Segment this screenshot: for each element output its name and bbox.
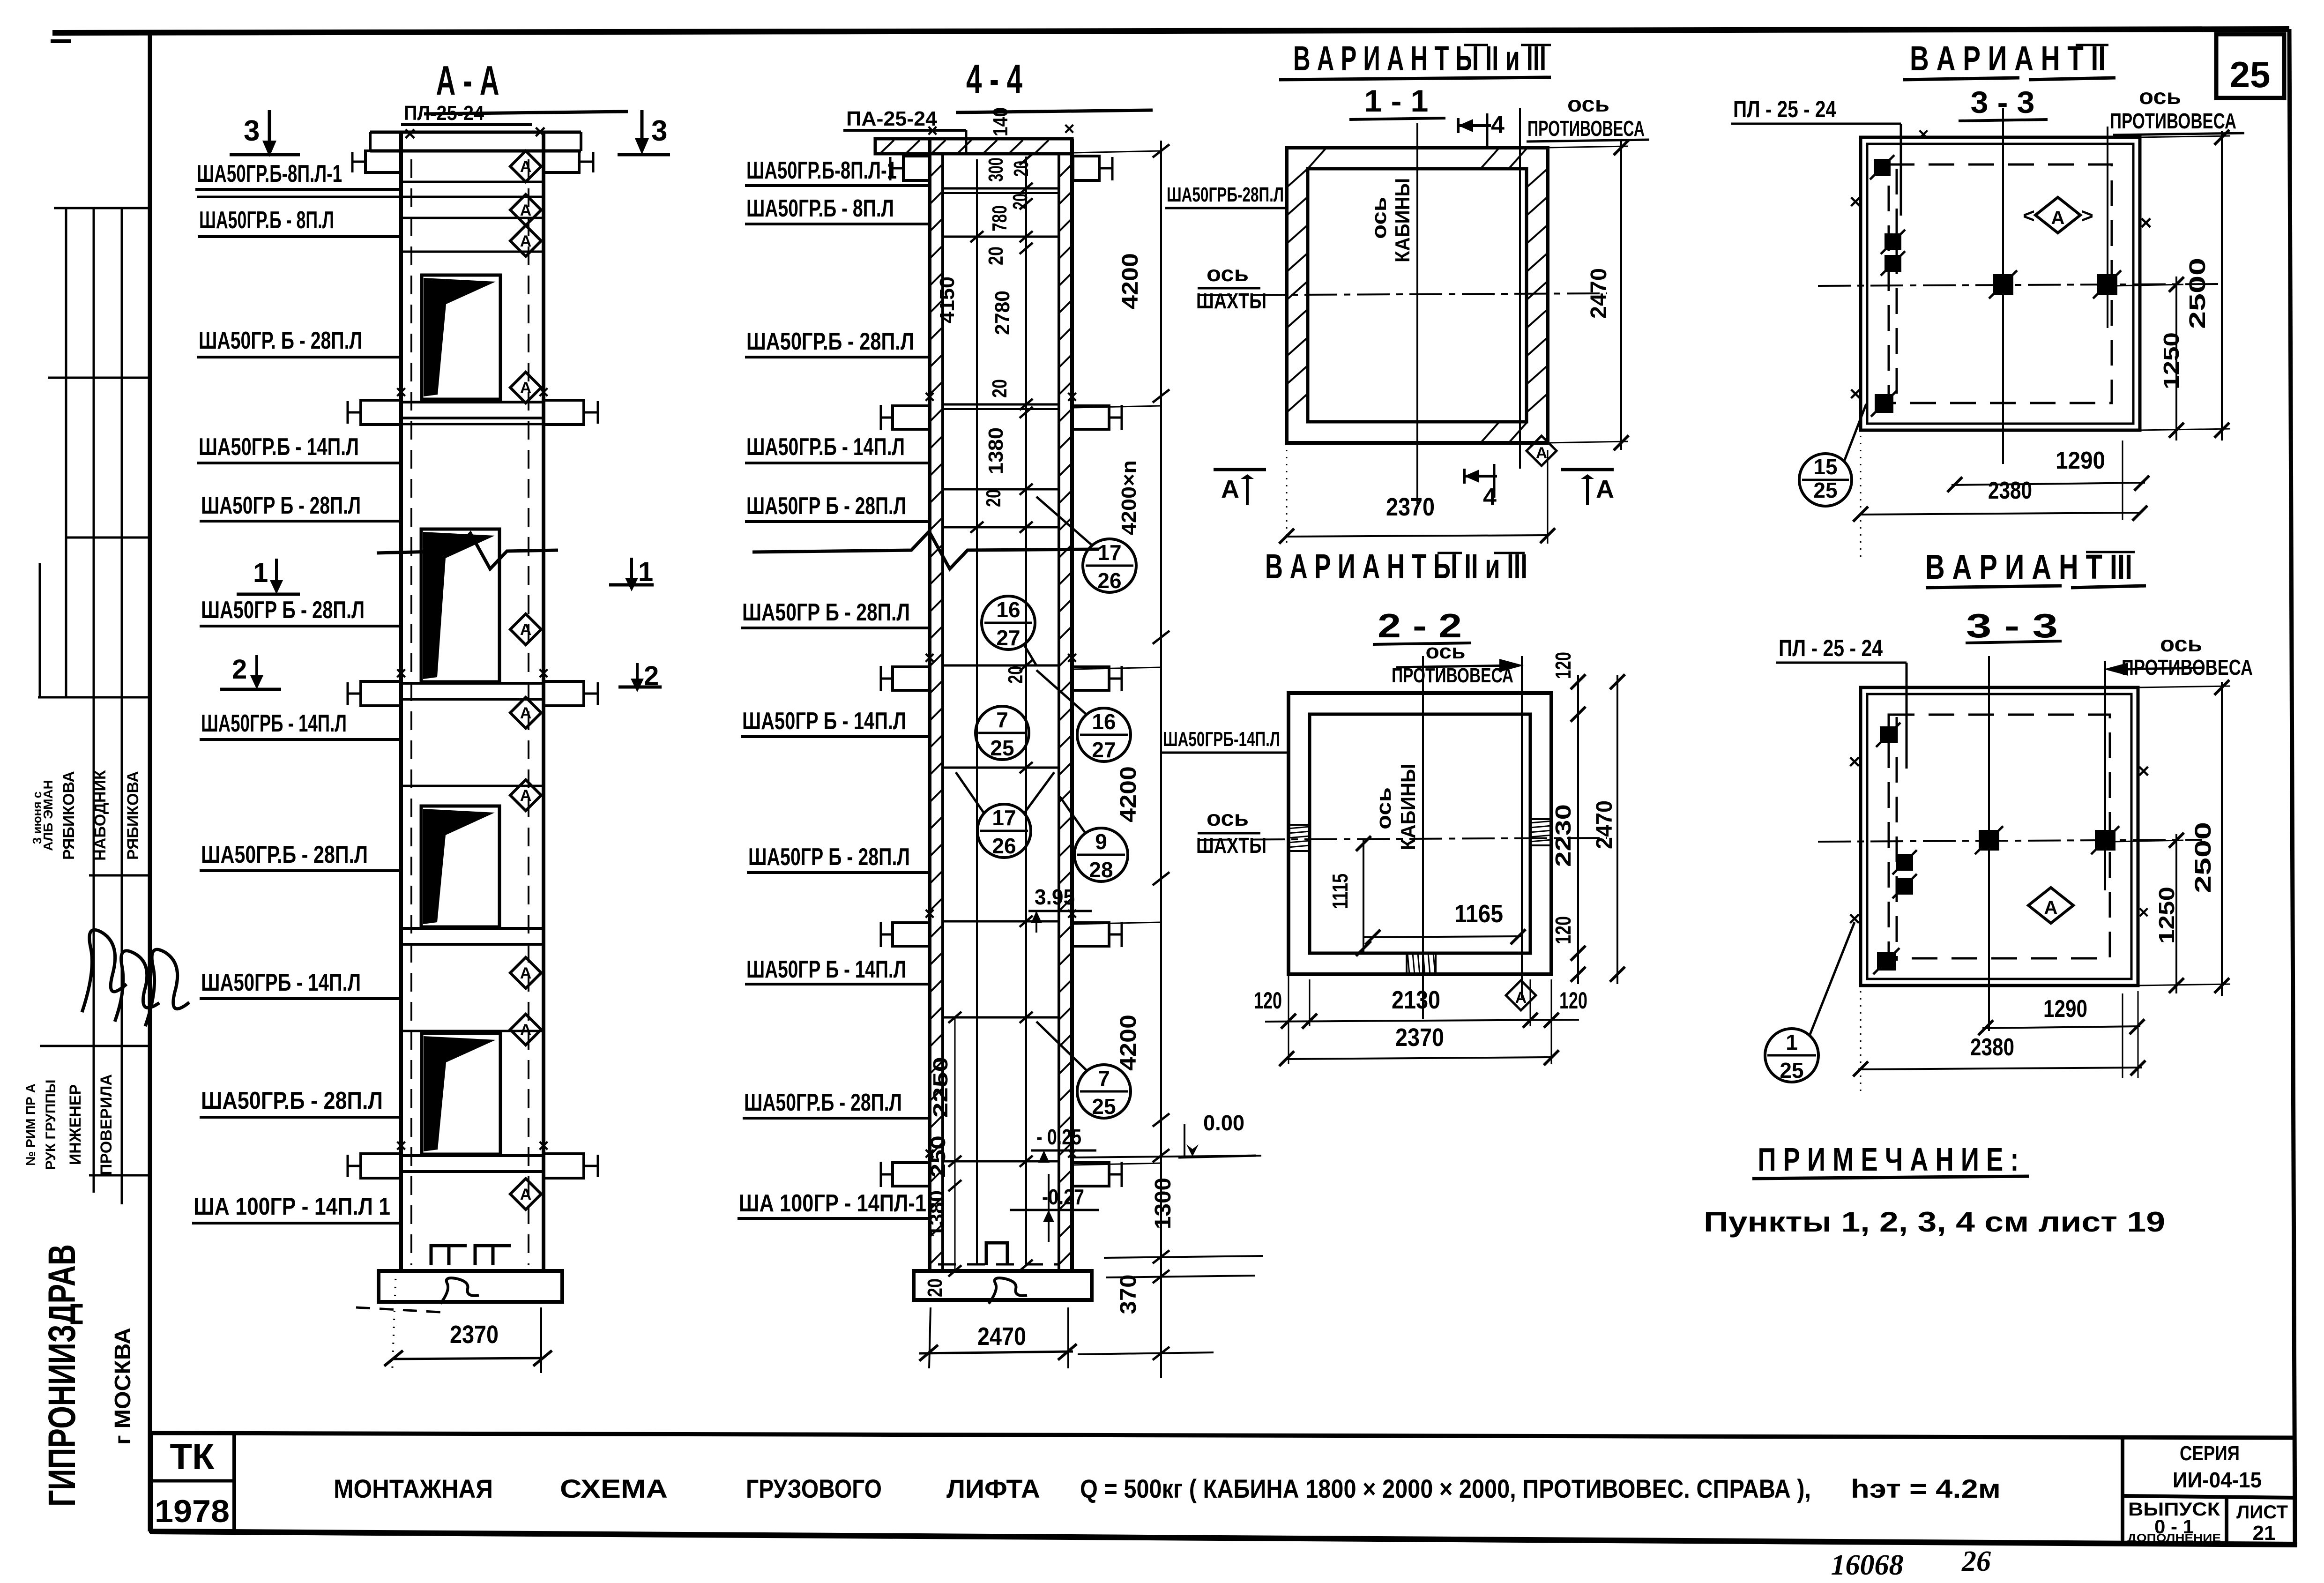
anchor diamond left col y1521	[510, 697, 541, 728]
series lower divider	[2225, 1497, 2228, 1543]
svg-text:1115: 1115	[1328, 874, 1352, 909]
svg-text:×: ×	[924, 904, 935, 924]
svg-text:№ РИМ ПР А: № РИМ ПР А	[23, 1083, 38, 1166]
svg-text:25: 25	[1780, 1058, 1803, 1083]
margin hline 6	[40, 1045, 150, 1047]
plan4 dashed square	[1889, 715, 2110, 958]
svg-text:2: 2	[232, 654, 247, 685]
mid col joint y2171	[943, 1016, 1059, 1019]
anchor diamond left col y2076	[510, 957, 541, 988]
plan3 dim 1250	[2175, 276, 2177, 441]
left col foundation dash	[356, 1307, 440, 1312]
svg-text:ША 100ГР - 14ПЛ-1: ША 100ГР - 14ПЛ-1	[739, 1190, 926, 1217]
svg-text:×: ×	[538, 1135, 549, 1156]
svg-text:20: 20	[982, 489, 1005, 507]
door opening 4 (left col)	[422, 1033, 500, 1154]
svg-text:2370: 2370	[450, 1321, 499, 1349]
svg-text:МОНТАЖНАЯ: МОНТАЖНАЯ	[334, 1474, 493, 1503]
svg-text:1 - 1: 1 - 1	[1364, 83, 1429, 118]
svg-text:А: А	[1221, 475, 1239, 503]
svg-text:×: ×	[395, 663, 406, 684]
plan2 ось противовеса line	[1521, 656, 1523, 998]
svg-text:16: 16	[1092, 709, 1116, 734]
svg-text:1300: 1300	[1151, 1178, 1176, 1229]
svg-text:ША50ГР.Б-8П.Л-1: ША50ГР.Б-8П.Л-1	[197, 160, 342, 187]
mid col dim chain ticks	[1020, 154, 1033, 165]
svg-text:9: 9	[1095, 829, 1107, 854]
svg-text:×: ×	[924, 648, 935, 668]
left col slab level 3	[401, 682, 544, 685]
svg-text:2380: 2380	[1970, 1034, 2014, 1061]
svg-text:2500: 2500	[2191, 822, 2216, 893]
svg-text:ША50ГР Б - 28П.Л: ША50ГР Б - 28П.Л	[746, 493, 906, 520]
svg-text:×: ×	[927, 120, 938, 141]
svg-text:КАБИНЫ: КАБИНЫ	[1391, 178, 1414, 262]
svg-text:ось: ось	[2160, 632, 2202, 656]
svg-text:ША50ГРБ-14П.Л: ША50ГРБ-14П.Л	[1163, 728, 1280, 751]
label1 extra leader	[197, 196, 401, 198]
mid col break line	[752, 531, 1099, 569]
plan1 top wall left hatch	[1308, 148, 1326, 169]
plan1 corner diamond	[1527, 436, 1557, 466]
svg-text:1250: 1250	[2159, 332, 2183, 389]
plan4 dim 1250	[2175, 834, 2177, 993]
svg-text:А: А	[2044, 897, 2058, 918]
svg-text:1978: 1978	[155, 1493, 230, 1529]
svg-text:120: 120	[1551, 916, 1575, 944]
svg-text:2250: 2250	[929, 1057, 952, 1118]
svg-text:А: А	[520, 232, 532, 250]
svg-text:А: А	[2051, 208, 2065, 228]
svg-text:17: 17	[1097, 540, 1121, 565]
svg-text:20: 20	[988, 379, 1011, 398]
left col slab level 5	[401, 1154, 544, 1157]
top slab left wing	[365, 151, 401, 172]
plan2 ось шахты line	[1199, 838, 1607, 840]
left col extra joint y2200	[401, 1030, 544, 1032]
section mark 1 (right)	[630, 558, 633, 581]
plan3 dashed rail left	[1896, 169, 1898, 408]
svg-text:20: 20	[924, 1278, 946, 1297]
svg-text:ПРОТИВОВЕСА: ПРОТИВОВЕСА	[1527, 116, 1645, 141]
circle mark 7/25 a	[976, 706, 1029, 760]
svg-text:15: 15	[1813, 455, 1837, 479]
left column left wall	[399, 131, 403, 1271]
svg-text:4200: 4200	[1118, 253, 1143, 309]
svg-text:ША50ГР.Б - 28П.Л: ША50ГР.Б - 28П.Л	[201, 841, 368, 868]
svg-text:ША50ГР.Б - 14П.Л: ША50ГР.Б - 14П.Л	[746, 433, 905, 461]
svg-text:×: ×	[534, 120, 546, 143]
plan3 dim 2380	[1861, 513, 2140, 515]
svg-text:ША50ГРБ - 14П.Л: ША50ГРБ - 14П.Л	[201, 710, 347, 737]
circle mark 17/26 a	[1083, 539, 1136, 592]
plan3 centerline v right	[2107, 127, 2108, 328]
sheet left frame	[148, 31, 152, 1531]
margin hline 4	[38, 696, 150, 699]
svg-text:- 0.25: - 0.25	[1036, 1125, 1081, 1149]
svg-text:3.95: 3.95	[1035, 885, 1075, 909]
svg-text:ПЛ - 25 - 24: ПЛ - 25 - 24	[1733, 96, 1836, 122]
mid col right wall inner	[1058, 155, 1060, 1271]
svg-text:ось: ось	[2139, 84, 2181, 109]
mid col right wall outer	[1070, 139, 1074, 1271]
anchor diamond left col y448	[510, 194, 541, 225]
plan4 centerline v center	[1988, 656, 1990, 1031]
anchor diamond left col y514	[510, 225, 541, 256]
svg-text:ША50ГР.Б-8П.Л-1: ША50ГР.Б-8П.Л-1	[746, 157, 897, 184]
plan1 dim 2470	[1620, 141, 1622, 450]
circle mark 16/27 a	[982, 596, 1035, 650]
svg-text:17: 17	[992, 806, 1016, 830]
circle mark 17/26 b	[977, 804, 1031, 858]
margin signature 3	[145, 949, 189, 1026]
plan1 ось противовеса line	[1519, 108, 1521, 469]
svg-text:ШАХТЫ: ШАХТЫ	[1196, 289, 1266, 313]
svg-text:28: 28	[1089, 858, 1113, 882]
svg-text:СЕРИЯ: СЕРИЯ	[2180, 1442, 2240, 1465]
plan4 dim 1290	[1982, 1026, 2140, 1028]
plan2 rail fix left	[1289, 825, 1310, 851]
svg-text:А: А	[520, 787, 532, 805]
svg-text:×: ×	[538, 663, 549, 684]
svg-text:ША50ГР Б - 28П.Л: ША50ГР Б - 28П.Л	[742, 599, 910, 626]
mid col wings level2	[893, 406, 930, 429]
svg-text:1: 1	[1786, 1030, 1798, 1054]
svg-text:25: 25	[2230, 54, 2271, 95]
page number box	[2216, 34, 2284, 98]
svg-text:×: ×	[395, 1135, 406, 1156]
mid col pit notch	[986, 1243, 1007, 1265]
svg-text:27: 27	[1092, 738, 1116, 762]
svg-text:26: 26	[1961, 1546, 1991, 1577]
svg-text:26: 26	[1097, 568, 1121, 593]
svg-text:<: <	[2023, 204, 2035, 227]
svg-text:2470: 2470	[977, 1322, 1026, 1351]
circle mark 16/27 b	[1077, 708, 1131, 762]
plan1 mark A right	[1561, 468, 1614, 471]
svg-text:120: 120	[1559, 987, 1587, 1014]
svg-text:7: 7	[996, 708, 1008, 732]
plan3 centerline v center	[2002, 108, 2004, 464]
mid col top slab	[875, 139, 1072, 154]
svg-text:ПРОВЕРИЛА: ПРОВЕРИЛА	[97, 1074, 115, 1175]
svg-text:1380: 1380	[984, 427, 1007, 474]
plan3 dashed square	[1889, 164, 2112, 403]
svg-text:25: 25	[1813, 478, 1837, 502]
plan4 circle 1/25	[1765, 1029, 1818, 1082]
plan2 ext lines bottom	[1288, 974, 1289, 1064]
svg-text:ГРУЗОВОГО: ГРУЗОВОГО	[746, 1474, 882, 1503]
plan4 dim 2380	[1858, 1068, 2142, 1069]
mid col top slab right wing	[1073, 156, 1099, 180]
svg-text:3: 3	[651, 115, 667, 147]
svg-text:А: А	[520, 1021, 532, 1039]
anchor diamond left col y2197	[510, 1014, 541, 1045]
svg-text:4: 4	[1491, 112, 1505, 139]
sheet right frame	[2289, 29, 2295, 1543]
left col slab level 2	[401, 401, 544, 403]
svg-text:А: А	[520, 202, 532, 219]
plan2 dim 2470 right	[1616, 675, 1618, 984]
mid col base dashed	[938, 1263, 1060, 1266]
svg-text:ось: ось	[1207, 261, 1249, 286]
mid col joint y2478	[943, 1160, 1059, 1163]
svg-text:7: 7	[1098, 1066, 1110, 1090]
mid col joint pair a	[943, 192, 1059, 194]
svg-text:2380: 2380	[1988, 477, 2032, 504]
plan2 inner wall	[1310, 714, 1530, 953]
svg-text:А: А	[1596, 475, 1614, 503]
svg-text:П Р И М Е Ч А Н И Е :: П Р И М Е Ч А Н И Е :	[1758, 1141, 2019, 1178]
plan2 dim bottom 120-2130-120	[1265, 1020, 1579, 1022]
svg-text:×: ×	[1848, 907, 1861, 930]
plan1 left wall hatch	[1287, 169, 1308, 187]
plan3 black squares	[1874, 159, 1891, 176]
svg-text:×: ×	[1849, 190, 1862, 213]
mid col joint y1638	[943, 767, 1059, 769]
svg-text:300: 300	[984, 157, 1007, 182]
plan1 bottom wall right hatch	[1481, 422, 1499, 443]
storey dim line	[1160, 141, 1162, 1378]
svg-text:ось: ось	[1426, 640, 1466, 663]
left col sill notches	[431, 1246, 511, 1265]
svg-text:ША50ГР Б - 28П.Л: ША50ГР Б - 28П.Л	[201, 492, 361, 519]
svg-text:1380: 1380	[925, 1190, 948, 1237]
svg-text:ИНЖЕНЕР: ИНЖЕНЕР	[67, 1084, 84, 1165]
door opening 3 (left col)	[421, 806, 499, 927]
svg-text:×: ×	[1064, 119, 1074, 139]
left column right wall	[542, 131, 545, 1271]
left col base top line	[401, 1269, 544, 1273]
svg-text:2470: 2470	[1592, 800, 1617, 849]
plan4 centerline v right	[2104, 661, 2106, 890]
plan1 dim 2370	[1287, 535, 1548, 537]
mid col right wall hatch	[1059, 164, 1072, 177]
numeral bars plan4 title	[2086, 551, 2135, 553]
svg-text:ША50ГРБ - 14П.Л: ША50ГРБ - 14П.Л	[201, 969, 361, 996]
circle mark 7/25 b	[1077, 1065, 1131, 1118]
TK box	[151, 1433, 234, 1531]
margin hline 3	[66, 537, 150, 539]
plan2 dim right chain	[1577, 675, 1579, 984]
svg-text:×: ×	[395, 382, 406, 403]
mid col foundation	[914, 1271, 1092, 1300]
svg-text:А: А	[1515, 989, 1527, 1007]
svg-text:А: А	[520, 704, 532, 722]
svg-text:ИИ-04-15: ИИ-04-15	[2173, 1468, 2262, 1492]
anchor diamond left col y827	[510, 372, 541, 403]
svg-text:4200: 4200	[1116, 766, 1141, 822]
svg-text:КАБИНЫ: КАБИНЫ	[1397, 764, 1420, 851]
svg-text:ША50ГР.Б - 8П.Л: ША50ГР.Б - 8П.Л	[746, 195, 894, 222]
plan1 section mark 4 bottom	[1463, 469, 1466, 484]
storey dim ticks	[1153, 144, 1169, 157]
plan1 section mark 4 top	[1457, 118, 1460, 133]
svg-text:Пункты 1, 2, 3, 4 см: Пункты 1, 2, 3, 4 см лист 19	[1704, 1206, 2165, 1238]
svg-text:×: ×	[2138, 760, 2150, 783]
svg-text:А: А	[520, 379, 532, 397]
svg-text:120: 120	[1254, 987, 1282, 1014]
margin signature 1	[82, 930, 127, 1012]
plan3 diamond A	[2035, 197, 2080, 233]
door opening 2 (left col)	[421, 529, 499, 682]
svg-text:1165: 1165	[1454, 900, 1503, 928]
svg-text:25: 25	[1092, 1094, 1116, 1119]
svg-text:ПА-25-24: ПА-25-24	[846, 107, 938, 130]
svg-text:×: ×	[2138, 902, 2149, 923]
svg-text:×: ×	[924, 387, 935, 407]
svg-text:4200×n: 4200×n	[1117, 460, 1140, 535]
svg-text:ДОПОЛНЕНИЕ: ДОПОЛНЕНИЕ	[2127, 1532, 2221, 1545]
svg-text:1250: 1250	[2154, 887, 2179, 944]
left column joint line y420	[401, 196, 544, 198]
svg-text:×: ×	[1918, 124, 1929, 145]
svg-text:В А Р И А Н Т Ы II и III: В А Р И А Н Т Ы II и III	[1293, 39, 1546, 78]
svg-text:2130: 2130	[1392, 986, 1440, 1014]
svg-text:ось: ось	[1207, 806, 1249, 830]
margin hline 5	[89, 874, 150, 877]
svg-text:2470: 2470	[1587, 268, 1611, 319]
svg-text:2370: 2370	[1395, 1023, 1444, 1052]
svg-text:250: 250	[927, 1135, 950, 1178]
svg-text:×: ×	[1066, 387, 1077, 407]
margin vline b	[93, 208, 95, 1193]
svg-text:ША50ГР Б - 28П.Л: ША50ГР Б - 28П.Л	[748, 844, 910, 871]
plan4 dashed rail left	[1896, 717, 1898, 961]
svg-text:ША 100ГР - 14П.Л 1: ША 100ГР - 14П.Л 1	[194, 1193, 390, 1220]
svg-text:г МОСКВА: г МОСКВА	[111, 1328, 135, 1445]
plan4 diamond A	[2028, 888, 2073, 923]
svg-text:ЛИФТА: ЛИФТА	[946, 1474, 1040, 1503]
plan3 circle 15/25	[1799, 454, 1852, 506]
anchor diamond left col y1697	[510, 780, 541, 811]
svg-text:В А Р И А Н Т Ы II и III: В А Р И А Н Т Ы II и III	[1265, 547, 1527, 586]
mid col joint y1420	[943, 665, 1059, 667]
svg-text:ША50ГР Б - 28П.Л: ША50ГР Б - 28П.Л	[201, 597, 365, 624]
svg-text:2370: 2370	[1386, 493, 1435, 521]
svg-text:А: А	[520, 964, 532, 982]
svg-text:120: 120	[1551, 652, 1575, 679]
margin vline d	[39, 563, 41, 698]
svg-text:ША50ГР.Б - 28П.Л: ША50ГР.Б - 28П.Л	[201, 1087, 383, 1114]
margin vline c	[121, 208, 123, 1204]
margin hline 1	[54, 207, 150, 209]
svg-text:hэт = 4.2м: hэт = 4.2м	[1851, 1474, 2001, 1503]
svg-text:ША50ГР.Б - 14П.Л: ША50ГР.Б - 14П.Л	[199, 433, 359, 461]
svg-text:ПЛ - 25 - 24: ПЛ - 25 - 24	[1779, 635, 1883, 661]
svg-text:А: А	[1536, 444, 1548, 462]
title block top line	[150, 1433, 2295, 1438]
margin vline a	[65, 208, 67, 698]
svg-text:×: ×	[404, 122, 416, 145]
svg-text:25: 25	[990, 736, 1014, 760]
svg-text:16: 16	[996, 597, 1020, 622]
plan2 dim 1115	[1363, 839, 1364, 953]
left column joint line y388	[401, 181, 544, 183]
left col foundation break squiggle	[440, 1278, 479, 1304]
plan4 outer wall	[1861, 687, 2138, 986]
plan1 inner wall	[1308, 169, 1527, 422]
mid col joint y402	[943, 187, 1059, 190]
mid col joint y1125	[943, 526, 1059, 529]
left column guide dashed right	[528, 159, 529, 1265]
svg-text:21: 21	[2253, 1522, 2276, 1545]
mid col wings level4	[893, 923, 930, 946]
svg-text:ША50ГР. Б - 28П.Л: ША50ГР. Б - 28П.Л	[199, 327, 362, 354]
svg-text:4150: 4150	[936, 276, 959, 323]
circle mark 9/28 a	[1074, 828, 1128, 881]
top-left paper edge mark	[51, 39, 71, 43]
section mark 2 (right)	[636, 663, 639, 682]
series box divider	[2121, 1436, 2124, 1542]
mid col foundation squiggle	[989, 1278, 1027, 1304]
svg-text:ША50ГР Б - 14П.Л: ША50ГР Б - 14П.Л	[742, 708, 906, 735]
mid col left wall inner	[941, 155, 944, 1271]
anchor diamond left col y2548	[510, 1179, 541, 1210]
svg-text:4 - 4: 4 - 4	[966, 56, 1022, 102]
section mark 3 (right)	[641, 110, 644, 141]
mid col base line	[930, 1269, 1072, 1273]
svg-text:26: 26	[992, 834, 1016, 858]
svg-text:ША50ГР.Б - 28П.Л: ША50ГР.Б - 28П.Л	[744, 1089, 902, 1116]
mid col joint y863	[943, 403, 1059, 406]
mid col wings level5	[893, 1163, 930, 1186]
left col extra joint y905	[401, 423, 544, 426]
plan2 corner diamond	[1506, 980, 1536, 1010]
svg-text:А: А	[520, 1186, 532, 1203]
mid col top slab left wing	[903, 156, 930, 180]
numeral bars plan3 title	[2076, 44, 2108, 46]
plan2 outer wall	[1289, 693, 1551, 974]
svg-text:СХЕМА: СХЕМА	[560, 1474, 668, 1503]
mid col dim chain lower	[954, 1017, 956, 1271]
left column joint line y465	[401, 217, 544, 219]
svg-text:370: 370	[1116, 1275, 1141, 1314]
svg-text:ГИПРОНИИЗДРАВ: ГИПРОНИИЗДРАВ	[41, 1244, 83, 1507]
plan4 black squares	[1880, 726, 1897, 743]
left column top slab	[370, 131, 581, 134]
mid col left wall hatch	[930, 164, 943, 177]
plan4 centerline h	[1818, 840, 2202, 842]
plan1 right wall hatch	[1527, 169, 1548, 187]
svg-text:3 - 3: 3 - 3	[1966, 607, 2058, 645]
svg-text:20: 20	[984, 246, 1007, 265]
svg-text:ША50ГР.Б - 8П.Л: ША50ГР.Б - 8П.Л	[199, 207, 334, 234]
plan1 ось кабины line	[1416, 123, 1418, 504]
plan3 centerline h	[1818, 284, 2221, 286]
plan2 ось кабины line	[1422, 656, 1424, 1019]
left col extra joint y1677	[401, 785, 544, 787]
svg-text:780: 780	[988, 205, 1011, 231]
svg-text:РЯБИКОВА: РЯБИКОВА	[124, 771, 142, 860]
door opening 1 (left col)	[422, 275, 500, 399]
svg-text:РЯБИКОВА: РЯБИКОВА	[60, 771, 78, 860]
numeral bars plan2 title	[1438, 552, 1462, 554]
anchor diamond left col y355	[510, 151, 541, 182]
svg-text:ПЛ-25-24: ПЛ-25-24	[404, 102, 484, 125]
plan1 mark A left	[1214, 468, 1266, 471]
svg-text:Q = 500кг ( КАБИНА 1800 × 2000: Q = 500кг ( КАБИНА 1800 × 2000 × 2000, П…	[1080, 1474, 1811, 1503]
margin hline 2	[48, 377, 150, 379]
svg-text:ШАХТЫ: ШАХТЫ	[1196, 833, 1266, 858]
plan2 dim bottom 2370	[1287, 1057, 1551, 1059]
svg-text:НАБОДНИК: НАБОДНИК	[91, 770, 109, 861]
svg-text:ось: ось	[1372, 787, 1395, 829]
mid col joint y505	[943, 236, 1059, 238]
mid col joint y1966	[943, 920, 1059, 923]
svg-text:×: ×	[2140, 211, 2152, 234]
svg-text:АЛБ ЭМАН: АЛБ ЭМАН	[41, 780, 55, 851]
